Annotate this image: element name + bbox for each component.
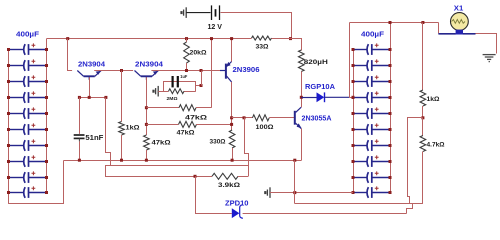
svg-text:2N3904: 2N3904: [135, 61, 163, 68]
node RC box drop on bus: [200, 69, 203, 72]
wire top right rail: [350, 22, 439, 24]
resistor R_20k 20kohm: [185, 37, 188, 40]
wire top rail from left ladder: [47, 38, 252, 40]
diode D1 RGP10A: [301, 97, 316, 99]
node row A 51nF: [78, 159, 81, 162]
wire left ladder right rail: [46, 39, 48, 193]
wire loop left down to 51nF: [79, 97, 81, 133]
wire corner to lamp: [438, 23, 440, 34]
wire battery positive to top corner: [221, 13, 292, 39]
capacitor C4 400uF: [9, 97, 24, 99]
node 100ohm row left: [230, 116, 233, 119]
capacitor C2 400uF: [9, 65, 24, 67]
resistor R_47kh2 47kohm row2: [146, 124, 178, 126]
svg-text:ZPD10: ZPD10: [225, 200, 249, 207]
svg-text:3.9kΩ: 3.9kΩ: [218, 182, 240, 189]
ground G4 below lamp: [488, 53, 490, 55]
node row A 47kv: [145, 159, 148, 162]
node lamp 1k branch: [421, 21, 424, 24]
svg-text:12 V: 12 V: [208, 24, 223, 31]
resistor R_1k 1kohm: [121, 71, 123, 122]
node loop top left: [78, 96, 81, 99]
capacitor C18 400uF: [353, 161, 367, 163]
wire right stair down crossing rows: [245, 118, 249, 177]
wire zener drop: [195, 176, 197, 213]
battery V1 12V: [186, 12, 210, 14]
wire Q4 net vertical: [294, 160, 296, 203]
wire RC box up to bus: [201, 71, 203, 86]
svg-text:47kΩ: 47kΩ: [185, 114, 207, 121]
svg-text:100Ω: 100Ω: [256, 124, 274, 131]
wire right ladder left rail: [353, 50, 355, 193]
node row A 1k: [120, 159, 123, 162]
capacitor C17 400uF: [353, 145, 367, 147]
wire Q1 base down: [89, 77, 91, 97]
svg-text:1kΩ: 1kΩ: [427, 96, 440, 103]
node 47k row1 left: [145, 106, 148, 109]
capacitor C1 400uF: [9, 49, 24, 51]
capacitor C11 400uF: [353, 49, 367, 51]
capacitor C9 400uF: [9, 177, 24, 179]
svg-text:330Ω: 330Ω: [210, 139, 226, 146]
transistor Q3 2N3906 PNP: [225, 64, 227, 79]
wire 51nF bottom to row A: [79, 141, 81, 160]
svg-text:2N3904: 2N3904: [78, 61, 105, 68]
resistor R_3k9 3.9kohm: [212, 173, 238, 179]
svg-text:1kΩ: 1kΩ: [126, 124, 140, 131]
wire Q1 collector drop: [67, 39, 69, 71]
wire left ladder left rail: [8, 50, 10, 204]
node RC box right mid: [196, 85, 201, 87]
wire Q3 collector down: [231, 82, 233, 130]
wire 1k junction left and down: [408, 118, 423, 204]
wire zener row stair up: [407, 204, 413, 214]
wire row C: [105, 176, 212, 178]
wire ladder bottom left: [9, 161, 64, 204]
wire row A main bottom bus: [64, 160, 302, 162]
svg-text:47kΩ: 47kΩ: [152, 139, 171, 146]
zener D2 ZPD10: [232, 208, 240, 218]
resistor R_4k7 4.7kohm: [422, 118, 424, 136]
wire bus Q1 emitter to Q2 collector: [94, 70, 133, 72]
node loop top right: [104, 96, 107, 99]
wire row B: [105, 165, 248, 167]
resistor R_47kh1 47kohm row1: [146, 107, 179, 109]
transistor Q2 2N3904: [141, 75, 152, 77]
svg-text:X1: X1: [454, 6, 464, 13]
node row A 330: [231, 159, 234, 162]
capacitor C51 51nF: [74, 134, 85, 136]
node Q1 base joins loop: [88, 96, 91, 99]
svg-text:4.7kΩ: 4.7kΩ: [427, 141, 445, 148]
wire Q3 emitter up to top rail: [231, 39, 233, 62]
wire lamp to ground: [476, 34, 497, 54]
capacitor C19 400uF: [353, 177, 367, 179]
resistor R_47kv 47kohm vertical: [144, 135, 150, 150]
wire s-jog to row C left end: [106, 166, 111, 177]
capacitor C15 400uF: [353, 113, 367, 115]
capacitor C14 400uF: [353, 97, 367, 99]
wire Q2 base down: [146, 77, 148, 135]
wire right ladder right rail: [390, 23, 392, 193]
capacitor C6 400uF: [9, 129, 24, 131]
svg-text:20kΩ: 20kΩ: [190, 50, 207, 57]
wire top corner to inductor: [291, 39, 302, 51]
capacitor C10 400uF: [9, 192, 24, 194]
node 47k row2 right: [230, 123, 233, 126]
svg-text:47kΩ: 47kΩ: [177, 129, 195, 136]
node 1k top: [120, 69, 123, 72]
svg-text:2MΩ: 2MΩ: [167, 96, 178, 101]
wire zener row right: [243, 213, 407, 215]
ground G1 battery negative: [185, 7, 187, 18]
node 20k bottom on bus: [185, 69, 188, 72]
wire bus Q2 emitter to Q3 base: [151, 70, 225, 72]
capacitor C5 400uF: [9, 113, 24, 115]
ground G2 at RC box: [157, 86, 159, 97]
transistor Q4 2N3055A: [294, 111, 296, 125]
svg-text:400µF: 400µF: [16, 32, 40, 39]
transistor Q1 2N3904: [84, 75, 95, 77]
svg-text:820µH: 820µH: [304, 59, 328, 66]
svg-text:1uF: 1uF: [180, 74, 187, 79]
capacitor C13 400uF: [353, 81, 367, 83]
svg-text:2N3906: 2N3906: [233, 67, 260, 74]
wire right ladder feed vertical: [349, 23, 351, 98]
capacitor C8 400uF: [9, 161, 24, 163]
resistor R_33 33ohm: [252, 36, 272, 40]
capacitor C3 400uF: [9, 81, 24, 83]
capacitor C7 400uF: [9, 145, 24, 147]
resistor R_1kr 1kohm right: [422, 23, 424, 91]
wire zener row left: [195, 213, 232, 215]
resistor R_100 100ohm: [232, 117, 253, 119]
resistor R_330 330ohm: [229, 130, 235, 148]
wire row 203 bottom right bus: [295, 203, 423, 205]
node battery drop joins top rail: [289, 37, 292, 40]
resistor R_2M 2Mohm: [169, 89, 185, 94]
node ground row Q4 net: [293, 191, 296, 194]
node diode anode junction: [300, 96, 303, 99]
lamp X1: [438, 33, 455, 35]
svg-text:2N3055A: 2N3055A: [302, 115, 332, 122]
wire Q4 emitter down to row A: [301, 129, 303, 161]
wire RC box bottom branch: [164, 91, 169, 93]
svg-text:400µF: 400µF: [361, 32, 385, 39]
node right stair top: [243, 116, 246, 119]
svg-text:RGP10A: RGP10A: [305, 84, 335, 91]
wire RC box right side: [195, 81, 197, 91]
capacitor C20 400uF: [353, 192, 367, 194]
wire ground row to ladder: [270, 192, 353, 194]
wire RC box top branch: [164, 81, 196, 83]
node 47k row2 left: [145, 123, 148, 126]
wire 47k row1 up to top rail: [211, 39, 213, 108]
wire RC box left side: [163, 81, 165, 91]
ground G3: [269, 187, 271, 198]
node row C zener drop: [194, 175, 197, 178]
svg-text:51nF: 51nF: [85, 133, 104, 142]
wire Q4 collector up to diode node: [301, 97, 303, 107]
node diode to rail: [352, 96, 355, 99]
wire loop right down + s-jog crossing row A: [106, 98, 111, 166]
inductor L1 820uH: [299, 50, 305, 72]
capacitor C_1uF 1uF: [172, 76, 174, 87]
capacitor C16 400uF: [353, 129, 367, 131]
node right rail top: [389, 21, 392, 24]
node row A Q4 net drop: [293, 159, 296, 162]
wire 4.7k down to row: [422, 152, 424, 204]
node 1k 4.7k junction: [421, 116, 424, 119]
capacitor C12 400uF: [353, 65, 367, 67]
wire 51nF loop top: [79, 97, 106, 99]
node top rail to Q1 collector: [66, 37, 69, 40]
svg-text:33Ω: 33Ω: [256, 44, 269, 51]
